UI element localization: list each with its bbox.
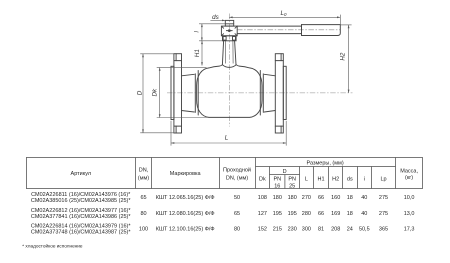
svg-text:180: 180: [288, 195, 297, 201]
svg-text:L: L: [305, 176, 308, 182]
svg-text:H1: H1: [317, 176, 324, 182]
svg-text:Артикул: Артикул: [71, 171, 92, 177]
svg-text:17,3: 17,3: [404, 227, 415, 233]
stem nut: [225, 20, 233, 26]
hub center bolt: [226, 29, 232, 32]
svg-text:40: 40: [361, 211, 367, 217]
dimension L: [171, 121, 286, 146]
gland flange: [223, 36, 237, 41]
svg-text:180: 180: [273, 195, 282, 201]
svg-text:Масса,: Масса,: [400, 168, 418, 174]
svg-text:PN: PN: [273, 176, 281, 182]
svg-text:i: i: [364, 176, 365, 182]
svg-text:H1: H1: [194, 49, 201, 57]
right flange raised face: [283, 66, 286, 119]
svg-text:H2: H2: [332, 176, 339, 182]
svg-text:275: 275: [379, 211, 388, 217]
dimension ds: [210, 14, 225, 21]
svg-text:230: 230: [288, 227, 297, 233]
svg-text:(кг): (кг): [405, 175, 413, 181]
svg-text:270: 270: [302, 195, 311, 201]
svg-text:169: 169: [331, 211, 340, 217]
left weld seam: [197, 71, 199, 116]
svg-text:Проходной: Проходной: [223, 167, 251, 174]
handle centerline: [237, 29, 340, 31]
svg-text:Dk: Dk: [152, 88, 159, 97]
dimension D: [136, 54, 174, 133]
svg-text:DN, (мм): DN, (мм): [226, 175, 248, 181]
left flange raised face: [171, 66, 174, 119]
svg-text:18: 18: [347, 195, 353, 201]
svg-text:D: D: [136, 90, 143, 95]
table header labels: [71, 160, 419, 189]
svg-text:КШТ 12.065.16(25) Ф/Ф: КШТ 12.065.16(25) Ф/Ф: [156, 195, 215, 201]
svg-text:66: 66: [318, 211, 324, 217]
svg-text:Маркировка: Маркировка: [170, 171, 202, 177]
dimension H1: [194, 41, 203, 66]
svg-text:365: 365: [379, 227, 388, 233]
svg-text:160: 160: [331, 195, 340, 201]
svg-text:Dk: Dk: [259, 176, 266, 182]
right flange bolt hole lines: [275, 54, 283, 133]
svg-text:CM02A385016 (25)/CM02A143985 (: CM02A385016 (25)/CM02A143985 (25)*: [31, 198, 132, 204]
hub corner marks: [222, 27, 237, 36]
svg-text:ds: ds: [212, 14, 220, 21]
svg-text:(мм): (мм): [138, 175, 149, 181]
right flange plate: [275, 54, 283, 133]
svg-text:65: 65: [140, 195, 146, 201]
dimension H2: [339, 25, 351, 93]
svg-text:10,0: 10,0: [404, 195, 415, 201]
svg-text:300: 300: [302, 227, 311, 233]
svg-text:195: 195: [273, 211, 282, 217]
svg-text:195: 195: [288, 211, 297, 217]
vertical centerline of stem: [228, 14, 230, 127]
valve body barrel: [197, 65, 262, 118]
table header grid: [26, 158, 422, 189]
horizontal centerline of valve: [167, 92, 353, 94]
svg-text:127: 127: [258, 211, 267, 217]
svg-text:81: 81: [318, 227, 324, 233]
right weld seam: [259, 71, 261, 116]
right neck pipe: [263, 74, 275, 113]
dimension L0: [229, 10, 340, 25]
table row 1: [31, 192, 415, 204]
svg-text:24: 24: [347, 227, 353, 233]
table row 2: [31, 208, 415, 220]
left flange bolt hole lines: [174, 54, 182, 133]
svg-text:DN,: DN,: [139, 168, 149, 174]
svg-text:H2: H2: [339, 52, 346, 61]
svg-text:КШТ 12.100.16(25) Ф/Ф: КШТ 12.100.16(25) Ф/Ф: [156, 227, 215, 233]
svg-text:L0: L0: [281, 10, 288, 17]
left neck pipe: [182, 74, 196, 113]
svg-text:13,0: 13,0: [404, 211, 415, 217]
svg-text:152: 152: [258, 227, 267, 233]
handle grip: [302, 25, 341, 36]
svg-text:40: 40: [361, 195, 367, 201]
left flange plate: [174, 54, 182, 133]
svg-text:PN: PN: [288, 176, 296, 182]
svg-text:208: 208: [331, 227, 340, 233]
svg-text:D: D: [283, 169, 287, 175]
svg-text:L: L: [225, 135, 229, 142]
svg-text:275: 275: [379, 195, 388, 201]
svg-text:CM02A373748 (16)/CM02A143987 (: CM02A373748 (16)/CM02A143987 (25)*: [31, 230, 132, 236]
svg-text:215: 215: [273, 227, 282, 233]
svg-text:25: 25: [289, 183, 295, 189]
svg-text:66: 66: [318, 195, 324, 201]
svg-text:Размеры, (мм): Размеры, (мм): [307, 160, 344, 166]
svg-text:80: 80: [140, 211, 146, 217]
svg-text:ds: ds: [347, 176, 353, 182]
gland bolts: [223, 37, 235, 41]
svg-text:Lp: Lp: [380, 176, 386, 182]
dimension l: [194, 24, 226, 41]
svg-text:18: 18: [347, 211, 353, 217]
svg-text:16: 16: [274, 183, 280, 189]
table row 3: [31, 224, 415, 236]
svg-text:100: 100: [139, 227, 148, 233]
svg-text:108: 108: [258, 195, 267, 201]
handle hub: [221, 26, 237, 36]
svg-text:КШТ 12.080.16(25) Ф/Ф: КШТ 12.080.16(25) Ф/Ф: [156, 211, 215, 217]
dimension Dk: [152, 67, 207, 117]
handle bar: [237, 26, 301, 33]
svg-text:280: 280: [302, 211, 311, 217]
stem column: [222, 41, 236, 65]
svg-text:* хладостойкое исполнение: * хладостойкое исполнение: [22, 242, 83, 248]
svg-text:80: 80: [234, 227, 240, 233]
svg-text:50,5: 50,5: [359, 227, 370, 233]
svg-text:65: 65: [234, 211, 240, 217]
svg-text:CM02A377841 (16)/CM02A143986 (: CM02A377841 (16)/CM02A143986 (25)*: [31, 214, 132, 220]
svg-text:50: 50: [234, 195, 240, 201]
